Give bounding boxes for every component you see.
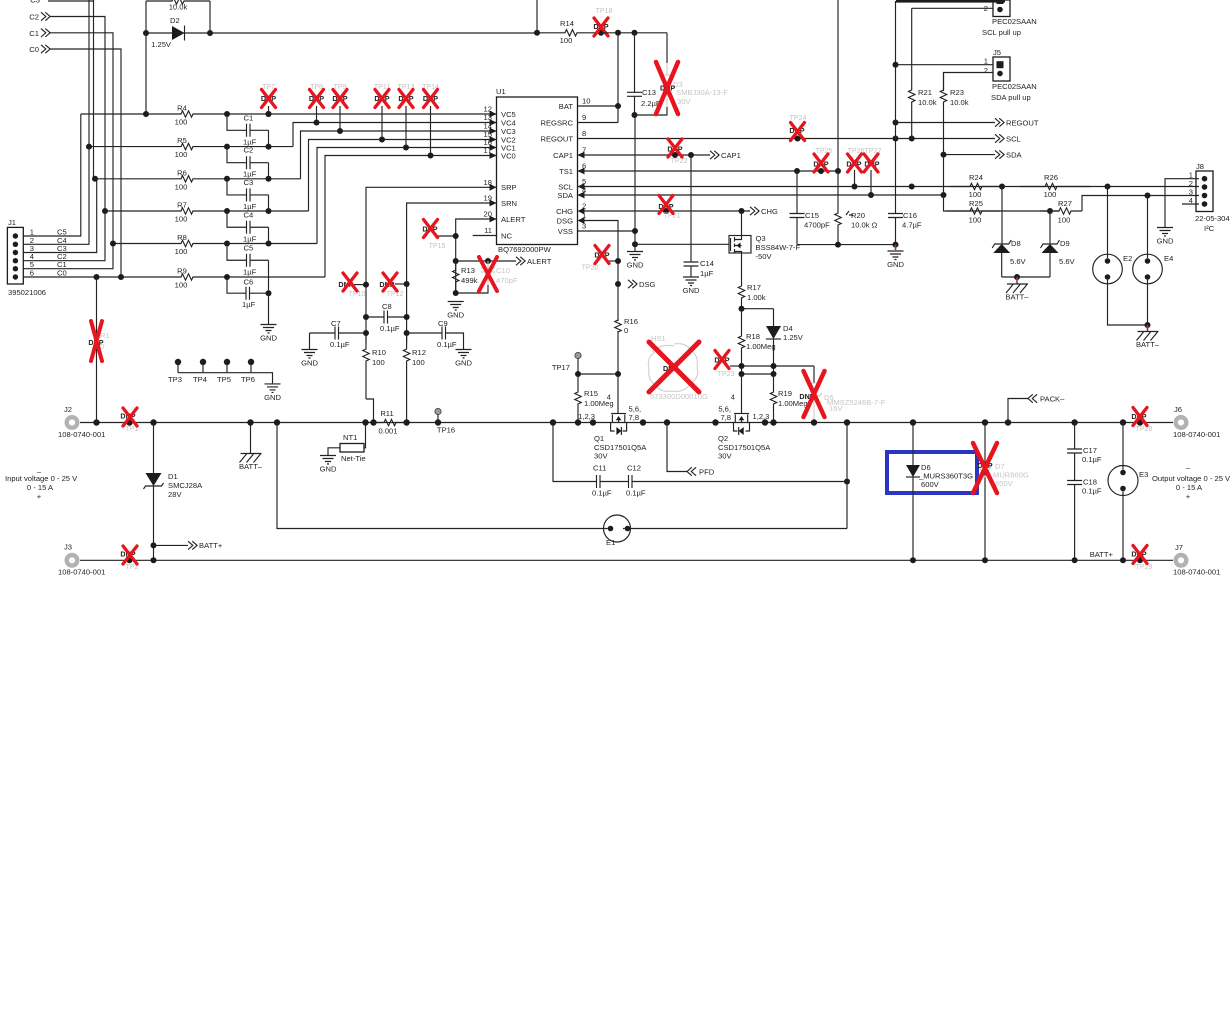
svg-text:GND: GND <box>264 393 281 402</box>
ground below R13 <box>448 302 464 311</box>
wire R9 jog to U1 pin <box>325 156 497 278</box>
svg-text:108-0740-001: 108-0740-001 <box>58 430 105 439</box>
diode D3 SMBJ30A-13-F DNP (ghost) <box>666 33 668 63</box>
svg-text:R4: R4 <box>177 104 187 113</box>
svg-text:BQ7692000PW: BQ7692000PW <box>498 245 552 254</box>
svg-text:3: 3 <box>582 222 586 231</box>
svg-text:4.7µF: 4.7µF <box>902 221 922 230</box>
wire Q3 drain to R17 <box>741 253 743 286</box>
resistor R15 1.00Meg <box>575 374 581 423</box>
test point TP17 <box>575 352 581 358</box>
svg-text:C14: C14 <box>700 259 714 268</box>
svg-text:BATT–: BATT– <box>1136 340 1160 349</box>
capacitor C11 0.1uF <box>553 423 597 482</box>
svg-text:108-0740-001: 108-0740-001 <box>58 568 105 577</box>
wire SDA row <box>578 194 944 196</box>
wire C4 vertical from top <box>88 0 90 147</box>
svg-text:R8: R8 <box>177 233 187 242</box>
svg-text:D4: D4 <box>783 324 793 333</box>
svg-text:TP4: TP4 <box>193 375 207 384</box>
ground below C9 <box>456 350 472 359</box>
wire CHG row <box>585 210 751 212</box>
svg-text:E3: E3 <box>1139 470 1148 479</box>
node SDA output chevron <box>944 154 996 156</box>
resistor R13 499k <box>453 261 459 293</box>
svg-text:1µF: 1µF <box>243 267 257 276</box>
svg-text:GND: GND <box>260 334 277 343</box>
wire SRP from U1 pin 18 <box>366 187 497 343</box>
svg-text:J6: J6 <box>1174 405 1182 414</box>
svg-text:100: 100 <box>175 150 188 159</box>
wire SCL row <box>578 186 1200 188</box>
svg-text:DSG: DSG <box>639 280 656 289</box>
svg-text:22-05-304: 22-05-304 <box>1195 214 1230 223</box>
wire REGSRC pin riser <box>578 33 619 123</box>
svg-text:GND: GND <box>301 359 318 368</box>
svg-text:R11: R11 <box>380 409 393 418</box>
svg-text:R23: R23 <box>950 88 964 97</box>
svg-text:Output voltage 0 - 25 V: Output voltage 0 - 25 V <box>1152 474 1230 483</box>
svg-text:C2: C2 <box>244 146 254 155</box>
capacitor C7 0.1uF <box>310 332 336 334</box>
svg-text:SCL pull up: SCL pull up <box>982 28 1021 37</box>
svg-text:R16: R16 <box>624 317 638 326</box>
svg-text:1.00Meg: 1.00Meg <box>746 342 776 351</box>
wire ALERT from U1 pin 20 <box>456 219 497 293</box>
svg-text:10.0k Ω: 10.0k Ω <box>851 221 878 230</box>
svg-text:CHG: CHG <box>556 207 573 216</box>
svg-text:R17: R17 <box>747 283 761 292</box>
svg-text:C0: C0 <box>57 269 67 278</box>
svg-text:4: 4 <box>731 393 735 402</box>
svg-text:D2: D2 <box>170 16 180 25</box>
svg-text:395021006: 395021006 <box>8 288 46 297</box>
svg-text:R15: R15 <box>584 389 598 398</box>
svg-text:TP28: TP28 <box>1136 426 1153 433</box>
svg-text:0 - 15 A: 0 - 15 A <box>1176 483 1203 492</box>
svg-text:+: + <box>1186 492 1191 501</box>
resistor R8 100 <box>113 240 317 246</box>
wire REGOUT row <box>578 138 996 140</box>
wire D2 left vertical <box>145 1 147 114</box>
junction dots on main rail <box>93 419 99 425</box>
svg-text:0.1µF: 0.1µF <box>1082 455 1102 464</box>
wire SDA to R25 row <box>944 195 1060 211</box>
svg-text:0.1µF: 0.1µF <box>330 340 350 349</box>
resistor R1 0 DNP (ghost) <box>96 277 98 423</box>
resistor R12 100 <box>403 333 409 423</box>
svg-text:TP3: TP3 <box>168 375 182 384</box>
resistor R18 1.00Meg <box>738 309 744 366</box>
jumper E3 <box>1122 423 1124 466</box>
node PFD input chevron <box>667 423 687 472</box>
wire REGOUT riser to C16 <box>895 1 897 214</box>
test points TP3-TP6 <box>175 359 181 365</box>
svg-text:R19: R19 <box>778 389 792 398</box>
svg-text:TP6: TP6 <box>241 375 255 384</box>
capacitor C13 2.2uF <box>634 33 636 93</box>
svg-text:5.6V: 5.6V <box>1059 257 1076 266</box>
svg-text:10.0k: 10.0k <box>169 3 188 12</box>
svg-text:0.1µF: 0.1µF <box>626 489 646 498</box>
svg-text:100: 100 <box>1044 190 1057 199</box>
capacitor C16 4.7uF <box>888 214 903 218</box>
svg-text:C0: C0 <box>29 45 39 54</box>
svg-text:I²C: I²C <box>1204 224 1215 233</box>
diode D4 1.25V <box>742 309 774 326</box>
svg-text:REGOUT: REGOUT <box>1006 118 1039 127</box>
wire J1 pin2 to C4 row <box>23 147 89 245</box>
wire C0 to grid <box>50 49 121 277</box>
wire main rail J2 to J6 <box>80 422 1173 424</box>
svg-text:499k: 499k <box>461 276 478 285</box>
svg-text:GND: GND <box>887 260 904 269</box>
svg-text:C9: C9 <box>438 319 448 328</box>
svg-text:Q2: Q2 <box>718 434 728 443</box>
svg-text:E2: E2 <box>1123 254 1132 263</box>
svg-text:TP5: TP5 <box>217 375 231 384</box>
node REGOUT output chevron <box>995 118 1004 126</box>
capacitor C8 0.1uF <box>366 316 384 318</box>
svg-text:100: 100 <box>175 215 188 224</box>
wire bottom rail J3 to J7 <box>80 559 1173 561</box>
svg-text:Input voltage 0 - 25 V: Input voltage 0 - 25 V <box>5 474 78 483</box>
svg-text:BATT+: BATT+ <box>1090 550 1114 559</box>
svg-text:11: 11 <box>484 226 492 235</box>
svg-text:NT1: NT1 <box>343 433 357 442</box>
ground at NT1 <box>320 456 336 465</box>
svg-text:C13: C13 <box>642 88 656 97</box>
wire Q3 gate from VSS <box>635 243 729 245</box>
resistor R9 100 <box>97 274 326 280</box>
wire R5 jog to U1 pin <box>293 123 497 147</box>
wire DSG from U1 pin 1 <box>585 221 619 322</box>
svg-text:BAT: BAT <box>559 102 574 111</box>
wire C1 to grid <box>50 33 113 244</box>
resistor R21 10.0k <box>912 7 993 9</box>
svg-text:1µF: 1µF <box>242 300 256 309</box>
svg-text:C16: C16 <box>903 211 917 220</box>
svg-text:+: + <box>37 492 42 501</box>
svg-text:GND: GND <box>683 286 700 295</box>
svg-text:D8: D8 <box>1011 239 1021 248</box>
capacitor C3 1uF <box>227 179 247 195</box>
svg-text:600V: 600V <box>995 479 1014 488</box>
svg-text:R13: R13 <box>461 266 475 275</box>
capacitor C1 1uF <box>227 114 247 130</box>
svg-text:CHG: CHG <box>761 207 778 216</box>
svg-text:BATT+: BATT+ <box>199 541 223 550</box>
svg-text:SMBJ30A-13-F: SMBJ30A-13-F <box>676 88 728 97</box>
svg-text:PFD: PFD <box>699 467 715 476</box>
svg-text:R24: R24 <box>969 173 983 182</box>
svg-text:100: 100 <box>412 358 425 367</box>
svg-text:4700pF: 4700pF <box>804 221 830 230</box>
ground below C14 <box>683 277 699 286</box>
svg-text:Q1: Q1 <box>594 434 604 443</box>
node CAP1 output chevron <box>710 151 719 159</box>
svg-text:100: 100 <box>969 216 982 225</box>
svg-text:GND: GND <box>447 311 464 320</box>
svg-text:10.0k: 10.0k <box>950 98 969 107</box>
svg-text:TP17: TP17 <box>552 363 570 372</box>
svg-text:30V: 30V <box>677 97 691 106</box>
resistor R25 100 <box>946 208 1000 214</box>
wire R17 bottom junction <box>739 306 745 312</box>
svg-text:30V: 30V <box>718 452 732 461</box>
ground BATT- near input <box>250 423 252 454</box>
capacitor C14 1uF <box>690 155 692 262</box>
svg-text:0.1µF: 0.1µF <box>437 340 457 349</box>
svg-text:C1: C1 <box>29 29 39 38</box>
capacitor C12 0.1uF <box>600 481 629 483</box>
diode D9 5.6V zener <box>1049 211 1051 244</box>
svg-text:TP23: TP23 <box>718 371 735 378</box>
svg-text:ALERT: ALERT <box>501 215 526 224</box>
svg-text:D9: D9 <box>1060 239 1070 248</box>
svg-text:C4: C4 <box>244 210 254 219</box>
resistor R16 0 <box>615 320 621 332</box>
wire C15/R20/C16 ground rail <box>797 244 896 246</box>
ground at TP6 <box>265 384 281 393</box>
wire SRN from U1 pin 19 <box>407 203 497 343</box>
wire J1 pin1 to C5 row <box>23 114 81 236</box>
svg-text:2: 2 <box>984 66 988 75</box>
wire J1 pin6 C0 row <box>23 276 96 278</box>
svg-text:R9: R9 <box>177 267 187 276</box>
wire REGOUT chevron row <box>896 122 996 124</box>
resistor R5 100 <box>89 143 293 149</box>
svg-text:J8: J8 <box>1196 162 1204 171</box>
svg-text:9: 9 <box>582 113 586 122</box>
svg-text:0: 0 <box>624 326 628 335</box>
resistor R7 100 <box>105 208 309 214</box>
svg-text:TP20: TP20 <box>582 265 599 272</box>
ground BATT- below E2 E4 <box>1108 284 1148 325</box>
resistor R4 100 <box>81 111 497 117</box>
wire R8 jog to U1 pin <box>317 148 497 244</box>
svg-text:GND: GND <box>320 465 337 474</box>
node CHG output chevron <box>750 207 759 215</box>
diode D8 5.6V zener <box>1001 187 1003 245</box>
svg-text:R20: R20 <box>851 211 865 220</box>
svg-text:NC: NC <box>501 231 512 240</box>
svg-text:R5: R5 <box>177 136 187 145</box>
wire R6 jog to U1 pin <box>301 131 498 179</box>
resistor R14 100 <box>537 30 601 36</box>
svg-text:SCL: SCL <box>1006 134 1021 143</box>
svg-text:1µF: 1µF <box>243 234 257 243</box>
svg-text:C2: C2 <box>29 13 39 22</box>
svg-text:30V: 30V <box>594 452 608 461</box>
svg-text:GND: GND <box>455 359 472 368</box>
svg-text:C5: C5 <box>244 243 254 252</box>
junction dots on cell rows <box>143 111 149 117</box>
svg-text:ALERT: ALERT <box>527 257 552 266</box>
resistor R11 0.001 <box>374 419 407 425</box>
resistor R20 10.0k <box>837 0 839 171</box>
wire J5 pin1 to REGOUT riser <box>896 64 993 66</box>
svg-text:PACK–: PACK– <box>1040 394 1065 403</box>
svg-text:C1: C1 <box>244 113 254 122</box>
svg-text:R6: R6 <box>177 168 187 177</box>
svg-text:D1: D1 <box>168 472 178 481</box>
capacitor C4 1uF <box>227 211 247 227</box>
svg-text:100: 100 <box>560 36 573 45</box>
svg-text:C17: C17 <box>1083 446 1097 455</box>
svg-text:REGSRC: REGSRC <box>541 118 574 127</box>
svg-text:SRP: SRP <box>501 183 517 192</box>
node ALERT output chevron <box>456 260 516 262</box>
svg-text:C3: C3 <box>30 0 40 5</box>
svg-text:R10: R10 <box>372 348 386 357</box>
diode D5 MMSZ5246B-7-F DNP (ghost) <box>813 366 815 383</box>
capacitor C5 1uF <box>227 244 247 261</box>
capacitor C17 0.1uF <box>1074 423 1076 450</box>
svg-text:SDA: SDA <box>1006 150 1023 159</box>
diode D7 MUR860G DNP (ghost) <box>984 423 986 561</box>
node C3 input chevron (cut off at top) <box>48 0 94 2</box>
svg-text:28V: 28V <box>168 490 182 499</box>
test point TP16 <box>435 408 441 414</box>
svg-text:J2: J2 <box>64 405 72 414</box>
svg-text:-50V: -50V <box>756 252 773 261</box>
svg-text:C6: C6 <box>244 278 254 287</box>
svg-text:1.25V: 1.25V <box>151 40 172 49</box>
diode D6 MURS360T3G (highlighted) <box>887 452 977 493</box>
resistor R23 10.0k <box>944 73 994 92</box>
svg-text:0.1µF: 0.1µF <box>1082 487 1102 496</box>
connector J4 PEC02SAAN SCL pull up <box>993 0 1010 17</box>
svg-text:VC0: VC0 <box>501 151 516 160</box>
capacitor C9 0.1uF <box>407 332 442 334</box>
svg-text:CAP1: CAP1 <box>553 151 573 160</box>
svg-text:1,2,3: 1,2,3 <box>578 412 595 421</box>
pin 11 NC stub <box>473 235 497 237</box>
wire top bus bar <box>896 0 1005 3</box>
ground at J8 <box>1157 228 1173 237</box>
svg-text:E1: E1 <box>606 538 615 547</box>
svg-text:C18: C18 <box>1083 478 1097 487</box>
resistor R19 1.00Meg <box>770 374 776 423</box>
svg-text:Net-Tie: Net-Tie <box>341 454 366 463</box>
wire BAT top vertical <box>536 0 538 33</box>
svg-text:1,2,3: 1,2,3 <box>753 412 770 421</box>
svg-text:R14: R14 <box>560 19 574 28</box>
wire TS divider junctions <box>742 366 815 374</box>
diode D1 SMCJ28A 28V <box>153 423 155 474</box>
svg-text:1µF: 1µF <box>700 269 714 278</box>
wire CAP1 row <box>578 154 711 156</box>
wire C2 to grid <box>50 17 105 212</box>
jumper E4 <box>1147 196 1149 255</box>
ground below C6 <box>268 293 270 324</box>
resistor R26 100 <box>1020 183 1090 189</box>
svg-text:10.0k: 10.0k <box>918 98 937 107</box>
svg-text:VSS: VSS <box>558 227 573 236</box>
svg-text:SMCJ28A: SMCJ28A <box>168 481 203 490</box>
svg-text:PEC02SAAN: PEC02SAAN <box>992 17 1037 26</box>
svg-text:J3: J3 <box>64 543 72 552</box>
svg-text:Q3: Q3 <box>756 234 766 243</box>
svg-text:R18: R18 <box>746 332 760 341</box>
ground at VSS <box>627 252 643 261</box>
wire BAT net D2 to R14 <box>146 32 537 34</box>
svg-text:R27: R27 <box>1058 199 1072 208</box>
resistor R3 10.0k (top, cut off) <box>146 0 210 4</box>
capacitor C18 0.1uF <box>1067 481 1082 485</box>
svg-text:TP18: TP18 <box>596 8 613 15</box>
svg-text:C7: C7 <box>331 319 341 328</box>
svg-text:16V: 16V <box>829 404 843 413</box>
svg-text:TP16: TP16 <box>437 426 455 435</box>
svg-text:SRN: SRN <box>501 199 517 208</box>
svg-text:GND: GND <box>627 261 644 270</box>
jumper E2 <box>1107 187 1109 255</box>
node PACK- input chevron <box>1008 399 1028 423</box>
wire J1 pin4 to C2 row <box>23 211 105 261</box>
wire J1 pin5 to C1 row <box>23 244 113 269</box>
svg-text:C10: C10 <box>496 266 510 275</box>
svg-text:TP15: TP15 <box>429 243 446 250</box>
svg-text:R21: R21 <box>918 88 932 97</box>
svg-text:4: 4 <box>607 393 611 402</box>
wire R27 to J8 pin3 <box>1082 196 1199 212</box>
wire J8 pin1 to GND <box>1165 179 1199 227</box>
svg-text:BSS84W-7-F: BSS84W-7-F <box>756 243 801 252</box>
resistor R6 100 <box>95 176 301 182</box>
jumper E1 <box>604 515 631 542</box>
svg-text:BATT–: BATT– <box>1005 293 1029 302</box>
svg-text:TP22: TP22 <box>671 158 688 165</box>
svg-text:C3: C3 <box>244 178 254 187</box>
wire BAT pin to riser <box>578 105 619 107</box>
wire 10.0k right vertical <box>209 1 211 33</box>
transistor Q3 BSS84W-7-F <box>741 211 743 236</box>
resistor R24 100 on SCL row <box>950 183 1000 189</box>
svg-text:TP25: TP25 <box>816 148 833 155</box>
wire E1 row <box>277 423 847 529</box>
wire R14 to C13/D3 <box>601 32 667 34</box>
capacitor C6 1uF <box>227 277 246 293</box>
svg-text:100: 100 <box>175 247 188 256</box>
ground BATT- below D8 D9 <box>1002 276 1050 278</box>
svg-text:C11: C11 <box>593 464 606 473</box>
wire C3 vertical from top <box>93 0 95 179</box>
resistor R17 1.00k <box>738 286 744 309</box>
node BATT+ chevron <box>151 542 157 548</box>
svg-text:100: 100 <box>969 190 982 199</box>
svg-text:U1: U1 <box>496 87 506 96</box>
svg-text:5.6V: 5.6V <box>1010 257 1027 266</box>
svg-text:C12: C12 <box>627 464 641 473</box>
svg-text:10: 10 <box>582 97 590 106</box>
svg-text:6: 6 <box>30 269 34 278</box>
svg-text:108-0740-001: 108-0740-001 <box>1173 430 1220 439</box>
svg-text:1.00k: 1.00k <box>747 293 766 302</box>
wire J1 pin3 to C3 row <box>23 179 96 253</box>
svg-text:SDA pull up: SDA pull up <box>991 93 1031 102</box>
svg-text:TP12: TP12 <box>387 291 404 298</box>
svg-text:100: 100 <box>1058 216 1071 225</box>
capacitor C15 4700pF <box>796 171 798 214</box>
wire R7 jog to U1 pin <box>309 140 498 212</box>
junction dots on bottom rail <box>127 557 133 563</box>
node SCL output chevron <box>995 134 1004 142</box>
capacitor C2 1uF <box>227 147 247 163</box>
svg-text:7,8: 7,8 <box>629 413 640 422</box>
svg-text:J7: J7 <box>1175 543 1183 552</box>
